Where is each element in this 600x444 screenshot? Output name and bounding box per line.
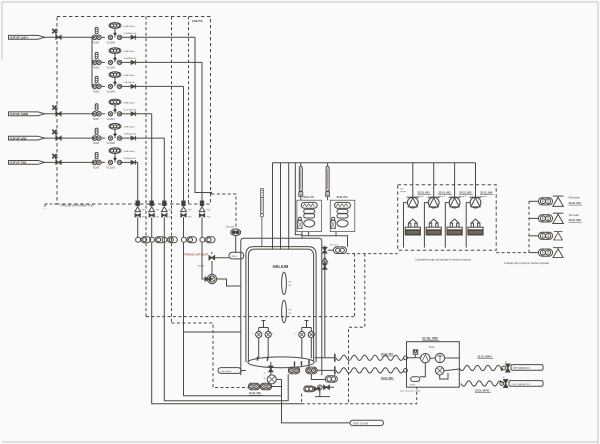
sample port at y=235.8 — [529, 235, 538, 237]
svg-text:F3: F3 — [289, 310, 292, 312]
safety valve assembly SV2 — [330, 200, 355, 231]
stub col5 to purge pump — [202, 243, 207, 279]
relief valve stack V10 — [135, 201, 141, 217]
storage dewar P1 — [405, 219, 420, 235]
hot water valve — [502, 366, 506, 370]
chiller unit box — [407, 342, 460, 388]
svg-text:c: c — [295, 333, 296, 335]
vent line to atmosphere flag — [282, 379, 351, 423]
svg-text:T1304: T1304 — [93, 42, 100, 44]
dashed signal line vertical 2 — [171, 17, 173, 324]
svg-text:(GHE 2bar): (GHE 2bar) — [124, 126, 135, 129]
header run to drop — [136, 85, 184, 87]
svg-text:32.GL.087/G: 32.GL.087/G — [475, 389, 490, 392]
svg-text:V13: V13 — [188, 210, 193, 212]
svg-text:30X 300: 30X 300 — [226, 227, 235, 229]
svg-text:E1303: E1303 — [198, 266, 205, 268]
chiller fan — [436, 367, 444, 375]
svg-text:E3: E3 — [289, 313, 292, 315]
column line — [137, 217, 139, 237]
blind/X valve at box edge — [52, 154, 61, 164]
svg-text:VC1305: VC1305 — [107, 67, 116, 69]
svg-text:PIPELINE INSTRUMENT FOR: PIPELINE INSTRUMENT FOR — [61, 204, 94, 207]
svg-text:V11: V11 — [156, 210, 160, 212]
vacuum pump P1 — [412, 163, 414, 198]
svg-text:N2: N2 — [401, 189, 405, 191]
svg-text:(GHE 2bar): (GHE 2bar) — [124, 74, 135, 77]
inlet filter/valve T1306 — [92, 84, 101, 89]
svg-text:COLD WATER OUT: COLD WATER OUT — [511, 383, 531, 386]
svg-text:Truck: Truck — [429, 346, 436, 349]
svg-text:V13: V13 — [188, 217, 193, 219]
svg-text:SUP OF LHE4: SUP OF LHE4 — [10, 36, 28, 40]
svg-text:32.GL.092: 32.GL.092 — [569, 218, 582, 222]
svg-text:T1308: T1308 — [93, 143, 100, 145]
return line col4 — [184, 243, 282, 396]
inlet line — [45, 137, 95, 139]
flexible hose 32.GL.084 — [336, 355, 404, 360]
inlet flag SUP OF LIN2 — [9, 136, 45, 140]
drop row1 with jog — [195, 37, 212, 194]
dashed sample header — [496, 201, 529, 252]
svg-text:32.GL.084: 32.GL.084 — [381, 353, 393, 356]
blind/X valve at box edge — [52, 29, 61, 39]
heater element 2 — [282, 300, 287, 322]
svg-text:LHe LEVEL: LHe LEVEL — [221, 371, 233, 373]
svg-text:F2: F2 — [289, 282, 292, 284]
hose coupling V12 — [162, 237, 177, 243]
line to flow arrow — [121, 137, 132, 139]
dashed vertical from test conn 1 — [347, 253, 398, 255]
inlet line — [45, 161, 95, 163]
pump discharge — [466, 203, 470, 248]
svg-text:GHE P/S: GHE P/S — [192, 19, 203, 23]
inlet flag SUP OF LHE4 — [9, 35, 45, 39]
pressure regulator VC1308 — [101, 137, 105, 139]
relief valve stack V12 — [161, 201, 167, 217]
line to flow arrow — [121, 85, 132, 87]
hot water flag — [511, 365, 543, 371]
svg-text:SUP OF GHE8: SUP OF GHE8 — [10, 112, 29, 116]
helium vessel inner wall outer line — [246, 247, 316, 362]
assembly drain header — [302, 232, 348, 247]
relief valve stack V14 — [199, 201, 205, 217]
header run to drop — [136, 137, 165, 139]
svg-text:VC1306: VC1306 — [107, 91, 116, 93]
svg-text:5c: 5c — [264, 373, 266, 375]
svg-text:2-GN2p4-09: 2-GN2p4-09 — [124, 158, 137, 160]
svg-text:32.GL.071: 32.GL.071 — [303, 197, 315, 199]
inlet line — [45, 36, 95, 38]
svg-text:32.GL.091: 32.GL.091 — [569, 201, 582, 205]
relief valve stack V13 — [181, 201, 187, 217]
hose area valve cluster — [325, 376, 337, 382]
svg-text:Test seals: Test seals — [569, 214, 580, 217]
svg-text:N: N — [505, 361, 507, 363]
dashed level line across vessel — [146, 316, 355, 318]
hose coupling V11 — [150, 237, 165, 243]
svg-text:Test conn: Test conn — [330, 244, 340, 247]
cold water flag — [509, 381, 543, 387]
chiller pump M1 — [421, 354, 430, 363]
drop row5 — [163, 138, 165, 201]
column line — [151, 217, 153, 237]
svg-text:(GHE 2bar): (GHE 2bar) — [124, 150, 135, 153]
hose coupling V14 — [200, 237, 215, 243]
header run to drop — [136, 161, 138, 163]
bottom valve pair station — [248, 383, 259, 390]
dashed feed to inline filter — [212, 194, 237, 229]
inlet line — [45, 113, 95, 115]
hose coupling V10 — [136, 237, 151, 243]
svg-text:2-GHE5(4-6): 2-GHE5(4-6) — [124, 58, 137, 60]
svg-text:32.GL.085: 32.GL.085 — [381, 377, 393, 380]
purge circulation pump — [209, 276, 215, 282]
svg-text:V11: V11 — [156, 217, 160, 219]
drop row6 — [137, 162, 139, 201]
svg-text:d: d — [315, 333, 316, 335]
drop row4 — [151, 114, 153, 201]
nozzle ticks — [258, 357, 310, 366]
column line — [183, 217, 185, 237]
return line col3 — [164, 243, 288, 401]
drain pump valve cluster — [304, 386, 314, 392]
inlet filter/valve T1304 — [92, 35, 101, 40]
thermowell tube 2 — [326, 167, 330, 197]
svg-text:32.GL.072: 32.GL.072 — [337, 197, 349, 199]
pump discharge — [404, 203, 408, 248]
svg-text:T1309: T1309 — [93, 167, 100, 169]
svg-text:SUP OF LIN2: SUP OF LIN2 — [10, 136, 27, 140]
inlet flag SUP OF GN2 — [9, 161, 45, 165]
svg-text:Cryostat/He purge unit (storag: Cryostat/He purge unit (storage in inter… — [415, 259, 471, 262]
dashed drop A — [354, 254, 356, 317]
vessel top drops — [273, 163, 289, 249]
line to flow arrow — [121, 161, 132, 163]
svg-text:VC1308: VC1308 — [107, 143, 116, 145]
sample port at y=201.3 — [529, 200, 538, 202]
svg-text:5v: 5v — [264, 378, 266, 380]
svg-text:Field seals: Field seals — [569, 198, 581, 200]
dashed bottom run — [302, 387, 417, 404]
header run to drop — [136, 61, 202, 63]
svg-text:N: N — [503, 377, 505, 379]
internal valve group left — [259, 321, 269, 359]
svg-text:(GHE 2bar): (GHE 2bar) — [124, 50, 135, 53]
svg-text:32.GL.062: 32.GL.062 — [438, 191, 451, 195]
svg-text:32.GL.082: 32.GL.082 — [249, 392, 261, 395]
branch header to rows 2-3 — [91, 37, 93, 86]
pressure regulator VC1306 — [101, 85, 105, 87]
svg-text:2-B GHe N): 2-B GHe N) — [124, 82, 136, 84]
svg-text:T1306: T1306 — [93, 91, 100, 93]
flexible hose 32.GL.086 — [459, 365, 502, 370]
svg-text:32.GL.086/G: 32.GL.086/G — [478, 355, 493, 358]
atmosphere flag — [350, 420, 384, 425]
svg-text:V12: V12 — [169, 217, 174, 219]
dashed signal line vertical 1 — [145, 17, 147, 317]
flow arrow 2-GHE5(4-6) — [131, 60, 136, 65]
cryostat outer jacket — [241, 238, 322, 375]
suction manifold — [273, 162, 476, 164]
sample port at y=252.6 — [529, 252, 538, 254]
svg-text:2-GN1p4-08: 2-GN1p4-08 — [124, 134, 137, 136]
svg-text:HOT WATER IN: HOT WATER IN — [513, 367, 530, 370]
blind/X valve at box edge — [52, 130, 61, 140]
heater element 1 — [282, 272, 287, 294]
bottom center pump — [267, 375, 276, 384]
svg-text:(GHE 2bar): (GHE 2bar) — [124, 25, 135, 28]
vessel top drop with jog — [295, 163, 302, 239]
line to flow arrow — [121, 61, 132, 63]
inlet filter/valve T1307 — [92, 112, 101, 117]
svg-text:pump 2: pump 2 — [438, 196, 446, 198]
column line — [201, 217, 203, 237]
svg-text:pump 1: pump 1 — [417, 196, 425, 198]
header run to drop — [136, 36, 195, 38]
inlet flag SUP OF GHE8 — [9, 112, 45, 116]
helium vessel inner wall inner line — [248, 249, 313, 362]
dashed signal line vertical 3 — [188, 17, 190, 205]
inlet filter/valve T1309 — [92, 160, 101, 165]
bottom center valve — [269, 366, 273, 372]
level probe dip tube — [260, 189, 263, 247]
svg-text:pump 3: pump 3 — [459, 196, 467, 198]
svg-text:PURGE CAP INLET: PURGE CAP INLET — [185, 253, 209, 257]
svg-text:V12: V12 — [169, 210, 174, 212]
svg-text:HELIUM: HELIUM — [273, 264, 289, 269]
vessel relief stack right — [324, 246, 326, 358]
dashed enclosure box GHE P/S — [57, 17, 211, 205]
vessel side line — [184, 331, 241, 333]
test connection pill — [328, 249, 334, 251]
line to flow arrow — [121, 113, 132, 115]
pressure regulator VC1307 — [101, 113, 105, 115]
purge valve — [209, 256, 215, 260]
flow arrow 2-GN2p4-09 — [131, 160, 136, 165]
level callout pill — [218, 368, 241, 374]
svg-text:T1307: T1307 — [93, 119, 100, 121]
chiller pump M2 — [435, 353, 444, 362]
svg-text:V14: V14 — [206, 217, 211, 219]
flow arrow 2-B GHe N) — [131, 84, 136, 89]
chiller reservoir — [411, 377, 420, 382]
svg-text:a: a — [252, 333, 254, 335]
svg-text:E2: E2 — [289, 285, 292, 287]
pressure regulator VC1304 — [101, 36, 105, 38]
flexible hose 32.GL.087 — [461, 381, 503, 386]
svg-text:32.GL.061: 32.GL.061 — [417, 191, 430, 195]
hose coupling V13 — [181, 237, 196, 243]
pressure regulator VC1305 — [101, 61, 105, 63]
svg-text:VC1309: VC1309 — [107, 167, 116, 169]
svg-text:VC1304: VC1304 — [107, 42, 116, 44]
dashed stub left of caption — [45, 204, 57, 209]
pressure regulator VC1309 — [101, 161, 105, 163]
svg-text:SUP OF GN2: SUP OF GN2 — [10, 161, 27, 165]
pump discharge — [445, 203, 449, 248]
pump group dashed enclosure — [398, 185, 497, 251]
flow arrow 2-GN1p4-08 — [131, 136, 136, 141]
vessel bottom head — [248, 357, 314, 368]
pump discharge — [424, 203, 428, 248]
drain valve pair 1 — [295, 365, 302, 367]
safety valve assembly SV1 — [297, 200, 322, 231]
svg-text:c Refill: c Refill — [409, 384, 416, 386]
internal valve group right — [302, 321, 312, 359]
svg-text:RING: RING — [232, 256, 238, 258]
svg-text:2-GHE4(4-6): 2-GHE4(4-6) — [124, 33, 137, 35]
svg-text:VC1307: VC1307 — [107, 119, 116, 121]
storage dewar P4 — [468, 219, 483, 235]
storage dewar P3 — [447, 219, 462, 235]
drop row2 — [201, 62, 203, 201]
blind/X valve at box edge — [52, 105, 61, 115]
storage dewar P2 — [426, 219, 441, 235]
line to hose 1 — [315, 357, 335, 359]
chiller sensor square — [413, 350, 417, 354]
vacuum pump P2 — [433, 163, 435, 198]
svg-text:32.GL.064: 32.GL.064 — [480, 191, 493, 195]
svg-text:2 sample port of output in int: 2 sample port of output in interface pro… — [504, 262, 549, 265]
line filter to ring — [235, 236, 237, 253]
drop row3 — [183, 86, 185, 201]
sample port at y=218.4 — [529, 217, 538, 219]
return line col2 — [152, 243, 302, 404]
svg-text:water circ pump + chiller: water circ pump + chiller — [400, 390, 421, 393]
svg-text:T1305: T1305 — [93, 67, 100, 69]
svg-text:pump 4: pump 4 — [480, 196, 488, 198]
dashed line to bottom valve pair — [172, 323, 249, 388]
svg-text:V14: V14 — [206, 210, 211, 212]
relief valve stack V11 — [149, 201, 155, 217]
svg-text:VENT TO ATM: VENT TO ATM — [353, 422, 368, 425]
dashed drop B with jog — [349, 254, 365, 404]
inlet filter/valve T1305 — [92, 60, 101, 65]
purge ring fitting — [229, 252, 244, 259]
line to flow arrow — [121, 36, 132, 38]
vacuum pump P3 — [454, 163, 456, 198]
svg-text:b: b — [272, 333, 273, 335]
header run to drop — [136, 113, 152, 115]
flow arrow 2-GHE4(4-6) — [131, 35, 136, 40]
svg-text:32.GL.083: 32.GL.083 — [422, 336, 438, 340]
vacuum pump P4 — [475, 163, 477, 198]
flow arrow 6-10-GH-045 — [131, 111, 136, 116]
inlet filter/valve T1308 — [92, 136, 101, 141]
svg-text:purge: purge — [401, 190, 407, 193]
flexible hose 32.GL.085 — [336, 368, 404, 373]
svg-text:32.GL.063: 32.GL.063 — [459, 191, 472, 195]
thermowell tube 1 — [299, 167, 303, 197]
drain line to hose 2 — [317, 369, 335, 371]
svg-text:6-10-GH-045: 6-10-GH-045 — [124, 109, 138, 111]
drain valve pair 2 — [306, 367, 317, 374]
svg-text:(GHE 2bar): (GHE 2bar) — [124, 101, 135, 104]
cold water valve — [500, 382, 504, 386]
connection pill pair to vent line — [272, 386, 282, 388]
chiller internal piping — [407, 354, 460, 379]
column line — [163, 217, 165, 237]
